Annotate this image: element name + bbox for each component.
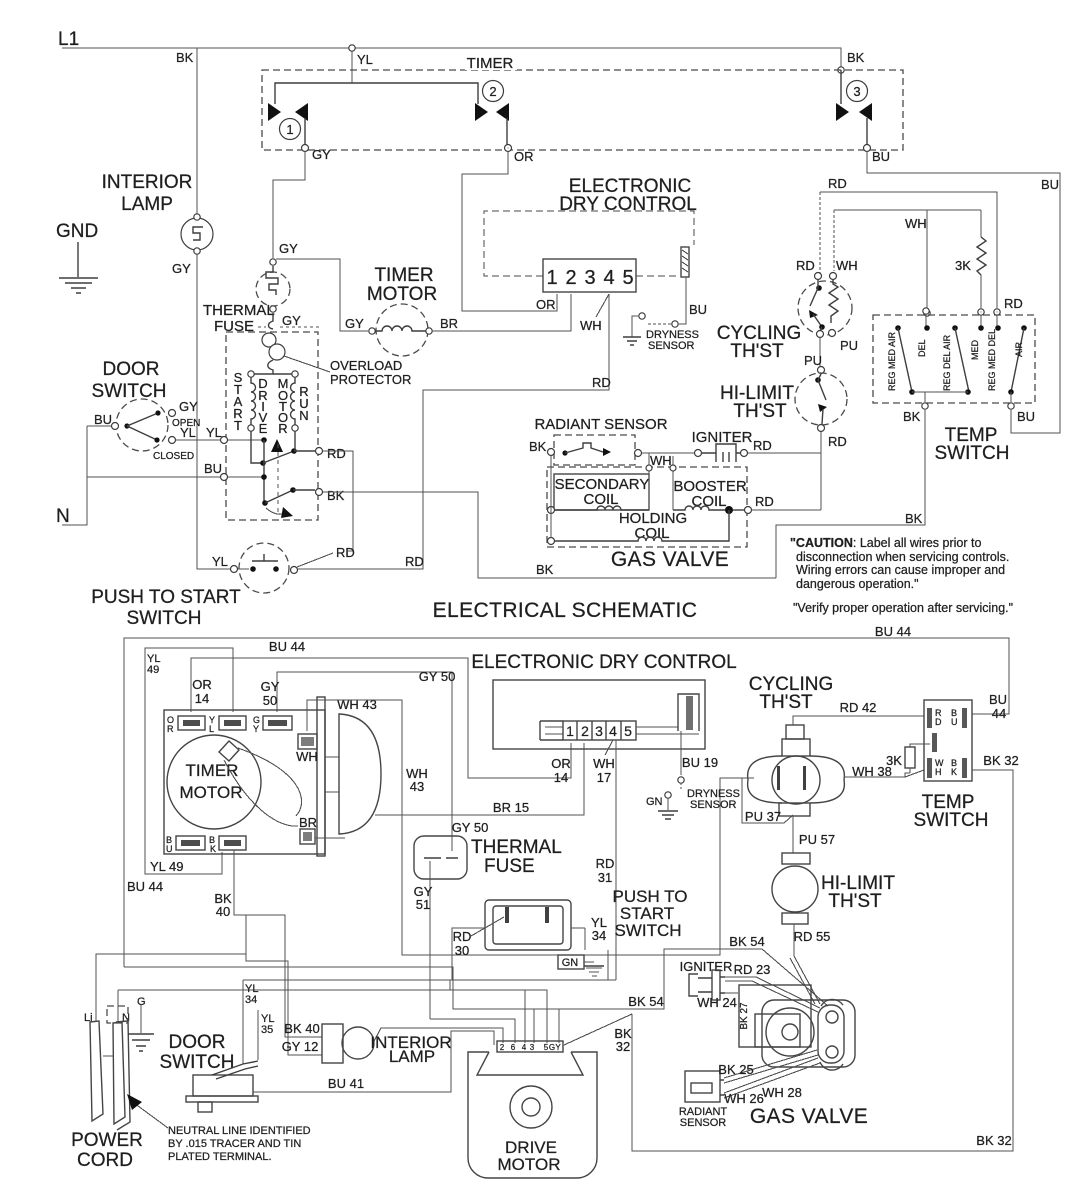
svg-text:BU: BU [989, 692, 1007, 707]
svg-text:17: 17 [597, 770, 611, 785]
svg-text:RD: RD [327, 446, 346, 461]
svg-text:51: 51 [416, 897, 430, 912]
svg-text:2: 2 [565, 267, 576, 289]
svg-text:3K: 3K [955, 258, 971, 273]
svg-text:TH'ST: TH'ST [759, 692, 813, 713]
svg-text:30: 30 [455, 943, 469, 958]
svg-text:GAS VALVE: GAS VALVE [750, 1105, 868, 1128]
svg-text:Y: Y [253, 724, 259, 734]
svg-text:3: 3 [853, 84, 860, 99]
wire GY 50 [277, 672, 452, 851]
svg-text:BK: BK [529, 439, 547, 454]
caution note [790, 536, 1013, 615]
svg-text:PU 57: PU 57 [799, 832, 835, 847]
svg-text:MOTOR: MOTOR [498, 1155, 561, 1174]
svg-text:GY 50: GY 50 [452, 820, 489, 835]
svg-text:GY: GY [261, 679, 280, 694]
svg-text:GN: GN [646, 796, 663, 808]
svg-text:INTERIOR: INTERIOR [102, 172, 193, 193]
svg-text:WH 26: WH 26 [724, 1091, 764, 1106]
svg-text:SENSOR: SENSOR [690, 799, 737, 811]
wire BR 15 [315, 743, 584, 838]
timer motor body [167, 735, 261, 829]
svg-text:BK: BK [847, 50, 865, 65]
svg-text:BK 40: BK 40 [284, 1021, 319, 1036]
svg-text:BU 44: BU 44 [269, 639, 305, 654]
thermal fuse (pictorial) [414, 836, 467, 879]
wire WH 26 / WH 28 [724, 1058, 820, 1098]
svg-text:BR 15: BR 15 [493, 800, 529, 815]
timer terminal BK [219, 836, 246, 850]
run winding [291, 377, 296, 425]
svg-text:"Verify proper operation after: "Verify proper operation after servicing… [793, 601, 1013, 615]
wire YL 49 loop [145, 648, 233, 874]
svg-text:RD: RD [828, 434, 847, 449]
interior lamp (pictorial) [322, 1024, 343, 1063]
wire PU 37 [742, 778, 793, 823]
wire RD 23 [725, 977, 820, 1012]
wire WH 17 [605, 740, 613, 755]
pts boundary [607, 950, 609, 980]
wire GY branch to timer motor [276, 259, 368, 331]
svg-text:TIMER: TIMER [374, 265, 433, 286]
svg-text:BU: BU [1017, 409, 1035, 424]
svg-text:BU 19: BU 19 [682, 755, 718, 770]
row Li [96, 954, 322, 1055]
svg-text:FUSE: FUSE [484, 856, 535, 877]
svg-text:PROTECTOR: PROTECTOR [330, 372, 411, 387]
svg-text:H: H [935, 767, 942, 777]
svg-text:WH: WH [580, 318, 602, 333]
svg-text:N: N [56, 506, 70, 527]
gas valve (schematic) [547, 467, 747, 547]
wire YL door switch to motor [176, 439, 220, 441]
svg-text:disconnection when servicing c: disconnection when servicing controls. [796, 550, 1009, 564]
svg-text:TIMER: TIMER [467, 55, 514, 72]
svg-text:40: 40 [216, 904, 230, 919]
wire BK lamp drop [196, 48, 198, 218]
svg-text:GN: GN [562, 957, 579, 969]
svg-text:R: R [278, 421, 287, 436]
svg-text:50: 50 [263, 693, 277, 708]
wire PU to hi-limit [819, 338, 821, 366]
svg-text:GY: GY [279, 241, 298, 256]
wire RD push-to-start to dry control [298, 294, 609, 569]
svg-text:OR: OR [536, 297, 556, 312]
wire BK 25 [724, 1050, 818, 1083]
svg-text:RD: RD [336, 545, 355, 560]
svg-text:WH 28: WH 28 [762, 1085, 802, 1100]
temp switch (pictorial) [924, 700, 972, 781]
svg-text:35: 35 [261, 1024, 273, 1036]
wire BU 19 dryness [680, 731, 682, 775]
svg-text:GAS VALVE: GAS VALVE [611, 548, 729, 571]
svg-text:THERMAL: THERMAL [471, 837, 562, 858]
timer switch 2 [475, 103, 488, 121]
svg-text:SWITCH: SWITCH [614, 921, 681, 940]
start winding [233, 370, 242, 433]
wire BK temp switch down [776, 410, 925, 578]
svg-text:YL: YL [357, 52, 373, 67]
svg-text:WH: WH [836, 258, 858, 273]
svg-text:1: 1 [546, 267, 557, 289]
svg-text:SWITCH: SWITCH [914, 810, 989, 831]
svg-text:RADIANT SENSOR: RADIANT SENSOR [534, 416, 667, 433]
svg-text:31: 31 [598, 870, 612, 885]
svg-text:DRY CONTROL: DRY CONTROL [559, 194, 697, 215]
svg-text:3: 3 [530, 1043, 535, 1052]
timer switch 3 [840, 70, 842, 104]
svg-text:TIMER: TIMER [186, 761, 239, 780]
svg-text:POWER: POWER [71, 1130, 143, 1151]
svg-text:5: 5 [622, 267, 633, 289]
svg-text:BK 27: BK 27 [739, 1002, 750, 1030]
wire OR 14 [191, 658, 571, 778]
svg-text:4: 4 [522, 1043, 527, 1052]
svg-text:RD 23: RD 23 [734, 962, 771, 977]
svg-text:AIR: AIR [1014, 341, 1024, 357]
terminal WH [298, 734, 317, 749]
svg-text:TH'ST: TH'ST [733, 401, 787, 422]
svg-text:RD: RD [1004, 296, 1023, 311]
svg-text:L: L [209, 724, 214, 734]
wire BK 40 [234, 850, 322, 1037]
svg-text:OR: OR [192, 677, 212, 692]
wire WH 38 [844, 770, 924, 777]
svg-text:SWITCH: SWITCH [935, 443, 1010, 464]
svg-text:BU 44: BU 44 [127, 879, 163, 894]
svg-text:BU: BU [872, 149, 890, 164]
svg-text:SENSOR: SENSOR [648, 340, 695, 352]
wire PU 57 [792, 816, 794, 853]
wire BK motor to gas valve bottom [323, 492, 776, 578]
svg-text:1: 1 [286, 122, 293, 137]
svg-text:49: 49 [147, 664, 159, 676]
svg-text:2: 2 [581, 723, 589, 739]
svg-text:U: U [951, 717, 958, 727]
svg-text:OR: OR [551, 756, 571, 771]
svg-text:ELECTRICAL SCHEMATIC: ELECTRICAL SCHEMATIC [433, 599, 698, 622]
wire timer inner bus [275, 83, 478, 104]
svg-text:WH 43: WH 43 [337, 697, 377, 712]
svg-text:YL: YL [206, 425, 222, 440]
svg-text:RD: RD [828, 176, 847, 191]
svg-text:COIL: COIL [634, 525, 669, 542]
svg-text:BK 25: BK 25 [718, 1062, 753, 1077]
svg-text:BU: BU [1041, 177, 1059, 192]
svg-text:5: 5 [624, 723, 632, 739]
svg-text:SENSOR: SENSOR [680, 1117, 727, 1129]
svg-text:BK: BK [327, 488, 345, 503]
svg-text:MED: MED [970, 340, 980, 361]
svg-text:RD: RD [596, 856, 615, 871]
wire BU timer sw3 to temp switch [867, 151, 1060, 433]
svg-text:14: 14 [195, 691, 209, 706]
temp switch (schematic) [873, 315, 1035, 403]
drive motor dashed box [226, 332, 318, 520]
svg-text:BR: BR [299, 815, 317, 830]
timer block [164, 710, 325, 854]
svg-text:RD: RD [405, 554, 424, 569]
timer dashed box [262, 70, 903, 150]
svg-text:LAMP: LAMP [121, 194, 173, 215]
svg-text:REG MED AIR: REG MED AIR [887, 331, 897, 391]
svg-text:MOTOR: MOTOR [180, 783, 243, 802]
svg-text:PU 37: PU 37 [745, 809, 781, 824]
svg-text:3: 3 [584, 267, 595, 289]
wire YL 34 drop [242, 980, 244, 1064]
svg-text:GY: GY [282, 313, 301, 328]
svg-text:RD: RD [796, 258, 815, 273]
svg-text:CLOSED: CLOSED [153, 451, 194, 462]
gas valve (pictorial) [739, 985, 811, 1047]
wire RD hi-limit to igniter/booster [820, 432, 822, 510]
svg-text:RD: RD [453, 929, 472, 944]
svg-text:DOOR: DOOR [169, 1032, 226, 1053]
svg-text:PU: PU [804, 353, 822, 368]
wire WH 43 [321, 699, 339, 701]
svg-text:BY .015 TRACER AND TIN: BY .015 TRACER AND TIN [168, 1138, 301, 1150]
svg-text:BK 32: BK 32 [983, 753, 1018, 768]
svg-text:Wiring errors can cause improp: Wiring errors can cause improper and [796, 563, 1005, 577]
svg-text:D: D [935, 717, 942, 727]
pulley D [339, 714, 381, 834]
svg-text:NEUTRAL LINE IDENTIFIED: NEUTRAL LINE IDENTIFIED [168, 1125, 311, 1137]
svg-text:T: T [234, 418, 242, 433]
wire RD 55 [790, 924, 820, 1004]
svg-text:R: R [167, 724, 174, 734]
svg-text:BK: BK [903, 409, 921, 424]
svg-text:2: 2 [500, 1043, 505, 1052]
svg-text:WH 24: WH 24 [697, 995, 737, 1010]
svg-text:WH: WH [650, 453, 672, 468]
svg-text:GND: GND [56, 221, 98, 242]
svg-text:BU: BU [689, 302, 707, 317]
N rail [62, 426, 87, 525]
svg-text:MOTOR: MOTOR [367, 284, 437, 305]
svg-text:WH 38: WH 38 [852, 764, 892, 779]
svg-text:SWITCH: SWITCH [127, 608, 202, 629]
svg-text:SWITCH: SWITCH [92, 381, 167, 402]
svg-text:BU: BU [204, 461, 222, 476]
3K resistor [905, 747, 915, 768]
wire BU 41 [253, 1031, 494, 1092]
svg-text:YL: YL [180, 425, 196, 440]
svg-text:GY 50: GY 50 [419, 669, 456, 684]
timer terminal YL [219, 716, 246, 730]
svg-text:YL: YL [212, 554, 228, 569]
timer cam [219, 741, 239, 761]
svg-text:TH'ST: TH'ST [828, 891, 882, 912]
svg-text:4: 4 [609, 723, 617, 739]
svg-text:BU 41: BU 41 [328, 1076, 364, 1091]
svg-text:GY: GY [172, 261, 191, 276]
wire GY 51 [429, 861, 431, 1019]
wire RD motor to push-to-start [323, 451, 353, 551]
svg-text:K: K [210, 844, 216, 854]
connector bar [681, 247, 689, 277]
wire YL 35 [257, 1010, 259, 1060]
svg-text:SWITCH: SWITCH [160, 1052, 235, 1073]
svg-text:COIL: COIL [691, 493, 726, 510]
svg-text:BU: BU [94, 412, 112, 427]
wire BK 32 [632, 770, 1013, 1151]
drive motor (pictorial) [468, 1052, 597, 1178]
svg-text:CORD: CORD [77, 1150, 133, 1171]
svg-text:RD: RD [755, 494, 774, 509]
svg-text:BR: BR [440, 316, 458, 331]
svg-text:K: K [951, 767, 957, 777]
wire BR to dry control pin2 [432, 294, 571, 331]
svg-text:4: 4 [603, 267, 614, 289]
svg-text:PUSH TO START: PUSH TO START [91, 587, 241, 608]
drive motor vertical text [258, 376, 308, 436]
svg-text:YL 49: YL 49 [150, 859, 184, 874]
svg-text:TH'ST: TH'ST [730, 341, 784, 362]
pulley bracket [317, 697, 325, 856]
svg-text:"CAUTION: Label all wires prio: "CAUTION: Label all wires prior to [790, 536, 981, 550]
svg-text:BU 44: BU 44 [875, 624, 911, 639]
svg-text:OVERLOAD: OVERLOAD [330, 358, 402, 373]
svg-text:14: 14 [554, 770, 568, 785]
svg-text:GY: GY [179, 399, 198, 414]
wire RD 42 [793, 716, 924, 725]
svg-text:WH: WH [905, 216, 927, 231]
timer terminal OR [178, 716, 205, 730]
svg-text:ELECTRONIC DRY CONTROL: ELECTRONIC DRY CONTROL [471, 652, 736, 673]
svg-text:BK: BK [905, 511, 923, 526]
svg-text:GY 12: GY 12 [282, 1039, 319, 1054]
svg-text:BK: BK [536, 562, 554, 577]
svg-text:REG MED DEL: REG MED DEL [987, 329, 997, 391]
hi-limit thermostat (pictorial) [782, 853, 810, 864]
svg-text:DEL: DEL [917, 339, 927, 357]
svg-text:dangerous operation.": dangerous operation." [796, 577, 919, 591]
svg-text:PU: PU [840, 338, 858, 353]
svg-text:WH: WH [296, 749, 318, 764]
svg-text:LAMP: LAMP [389, 1047, 435, 1066]
wire RD leader [297, 553, 333, 567]
svg-text:IGNITER: IGNITER [680, 959, 733, 974]
svg-text:34: 34 [592, 928, 606, 943]
wire BU to motor [87, 476, 220, 478]
svg-text:DOOR: DOOR [103, 359, 160, 380]
timer belt [238, 748, 302, 816]
svg-text:BK 32: BK 32 [976, 1133, 1011, 1148]
dryness sensor (schematic) [679, 277, 686, 324]
row YL34 [243, 979, 616, 981]
thermal fuse [270, 259, 276, 265]
svg-text:G: G [549, 1043, 555, 1052]
svg-text:6: 6 [511, 1043, 516, 1052]
svg-text:BK 54: BK 54 [628, 994, 663, 1009]
svg-text:BK: BK [176, 50, 194, 65]
svg-text:OR: OR [514, 149, 534, 164]
svg-text:U: U [166, 844, 173, 854]
wire WH 24 [725, 992, 738, 994]
wire BU 44 top rail [124, 638, 1009, 967]
wire lamp down to push-to-start [197, 254, 230, 569]
row lamp to pin2 [373, 1028, 503, 1043]
neutral note [134, 1103, 168, 1128]
terminal BR [300, 829, 315, 844]
svg-text:RD 55: RD 55 [794, 929, 831, 944]
svg-text:2: 2 [489, 84, 496, 99]
svg-text:RD: RD [753, 438, 772, 453]
timer terminal BU [176, 836, 205, 850]
svg-text:RD 42: RD 42 [840, 700, 877, 715]
svg-text:E: E [259, 421, 268, 436]
svg-text:3: 3 [595, 723, 603, 739]
wire OR to dry control [462, 151, 557, 311]
row to pins G/4 [118, 990, 547, 1043]
row rail to BK54 [124, 949, 828, 1009]
wire YL timer drop [351, 48, 353, 83]
svg-text:Y: Y [555, 1043, 561, 1052]
svg-text:GY: GY [312, 147, 331, 162]
overload protector [269, 313, 274, 329]
timer terminal GY [263, 716, 292, 730]
svg-text:44: 44 [992, 706, 1006, 721]
svg-text:34: 34 [245, 994, 257, 1006]
wire L1 top rail [62, 48, 841, 70]
svg-text:L1: L1 [58, 29, 79, 50]
svg-text:1: 1 [566, 723, 574, 739]
motor windings top bus [251, 373, 295, 375]
motor centrifugal switch [261, 437, 267, 443]
svg-text:PLATED TERMINAL.: PLATED TERMINAL. [168, 1151, 272, 1163]
svg-text:RD: RD [592, 375, 611, 390]
wire GY from timer sw1 to thermal fuse [273, 151, 305, 258]
radiant sensor (pictorial) [685, 1071, 720, 1102]
row GY51 to pin6 [430, 1019, 515, 1043]
svg-text:REG DEL AIR: REG DEL AIR [942, 334, 952, 391]
svg-text:43: 43 [410, 779, 424, 794]
timer switch 1 [268, 103, 281, 121]
resistor 3K [977, 237, 986, 275]
svg-text:BK 54: BK 54 [729, 934, 764, 949]
svg-text:WH: WH [593, 756, 615, 771]
svg-text:32: 32 [616, 1039, 630, 1054]
svg-text:THERMAL: THERMAL [203, 302, 275, 319]
svg-text:GY: GY [345, 316, 364, 331]
svg-text:N: N [122, 1012, 130, 1024]
svg-text:N: N [299, 408, 308, 423]
wire WH pin stub [596, 294, 609, 317]
